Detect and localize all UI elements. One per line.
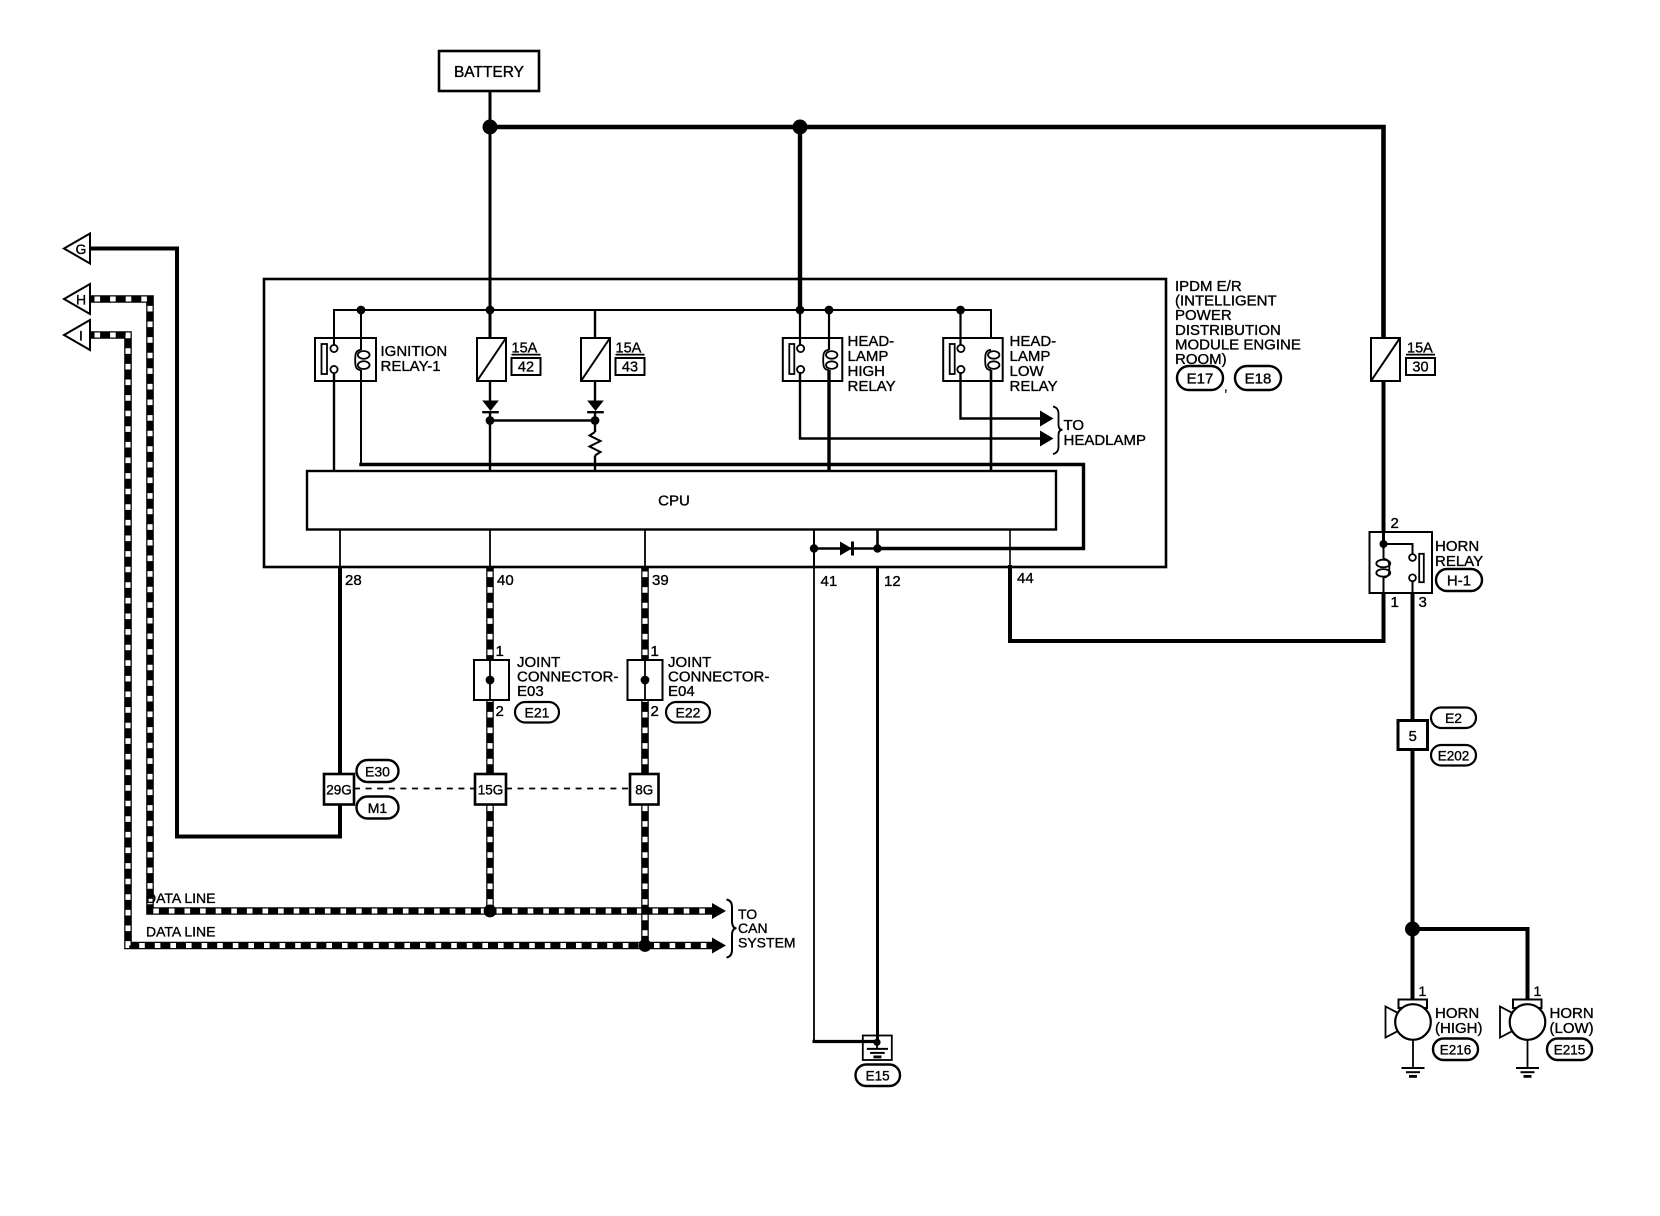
svg-text:1: 1 <box>1419 983 1427 999</box>
svg-text:30: 30 <box>1412 360 1428 376</box>
dotted splice link 15G-8G <box>506 788 630 790</box>
svg-text:E15: E15 <box>866 1069 890 1084</box>
svg-text:2: 2 <box>1391 515 1399 532</box>
svg-text:1: 1 <box>651 643 659 660</box>
svg-text:E03: E03 <box>517 683 544 700</box>
battery <box>439 51 539 91</box>
svg-text:41: 41 <box>821 573 838 590</box>
wire fuse 43 to diode <box>594 381 596 401</box>
svg-text:2: 2 <box>496 703 504 720</box>
svg-text:E216: E216 <box>1440 1043 1472 1058</box>
label TO CAN SYSTEM <box>738 906 796 951</box>
brace to headlamp <box>1053 407 1063 455</box>
connector label E2 <box>1431 708 1476 729</box>
svg-text:E22: E22 <box>676 705 701 721</box>
wire fuse 30 to horn relay <box>1382 381 1386 533</box>
svg-text:44: 44 <box>1017 570 1034 587</box>
junction rail high relay coil <box>825 306 834 315</box>
svg-text:28: 28 <box>345 572 362 589</box>
svg-text:E04: E04 <box>668 683 695 700</box>
connector label E22 <box>666 702 710 723</box>
wire CPU pin 39 stub <box>644 530 646 568</box>
joint connector E04 <box>628 643 663 720</box>
connector label E21 <box>515 702 559 723</box>
wire CPU pin 12 stub <box>876 530 879 549</box>
relay HEADLAMP HIGH RELAY <box>783 333 896 395</box>
diode D1 <box>482 401 499 413</box>
svg-text:I: I <box>79 328 83 344</box>
svg-text:E202: E202 <box>1438 749 1470 764</box>
svg-text:39: 39 <box>652 572 669 589</box>
wire IPDM pin 40 (shielded) <box>486 567 494 911</box>
arrow I <box>64 320 90 350</box>
diode D2 <box>587 401 604 413</box>
fuse 42 <box>477 338 541 381</box>
splice 8G <box>630 774 659 805</box>
svg-text:5: 5 <box>1409 728 1417 745</box>
svg-text:29G: 29G <box>326 783 352 798</box>
svg-text:H-1: H-1 <box>1447 573 1471 590</box>
wire H arrow data line 1 (shielded) <box>90 299 712 911</box>
label JOINT CONNECTOR-E04 <box>668 654 769 700</box>
svg-text:1: 1 <box>1534 983 1542 999</box>
dotted splice link 29G-15G <box>354 788 475 790</box>
junction data line 2 <box>639 939 652 952</box>
svg-text:CPU: CPU <box>658 493 690 510</box>
svg-text:G: G <box>76 241 87 257</box>
connector label E15 <box>856 1065 901 1087</box>
horn high symbol <box>1386 1000 1431 1040</box>
svg-text:12: 12 <box>884 573 901 590</box>
arrow to CAN upper <box>712 903 726 919</box>
wire horn relay pin1 to IPDM pin 44 <box>1010 565 1384 641</box>
label HORN (HIGH) <box>1435 1005 1483 1037</box>
junction rail battery drop <box>796 306 805 315</box>
svg-text:RELAY: RELAY <box>1435 553 1483 570</box>
ground symbol horn low <box>1516 1040 1539 1077</box>
svg-text:E18: E18 <box>1245 371 1272 388</box>
wire rail to low relay contact <box>959 310 961 345</box>
junction diode link left <box>486 416 495 425</box>
svg-text:RELAY: RELAY <box>848 378 896 395</box>
svg-text:E17: E17 <box>1187 371 1214 388</box>
wire IPDM pin 41 to ground <box>813 567 815 1042</box>
svg-text:E215: E215 <box>1554 1043 1586 1058</box>
wire ignition coil down <box>360 370 362 465</box>
relay IGNITION RELAY-1 <box>315 338 447 381</box>
wire horn relay pin3 down <box>1411 593 1415 722</box>
connector label E17 <box>1177 366 1228 394</box>
svg-text:BATTERY: BATTERY <box>454 64 524 81</box>
svg-text:40: 40 <box>497 572 514 589</box>
wire battery bus <box>490 127 1384 338</box>
svg-text:2: 2 <box>651 703 659 720</box>
svg-text:E30: E30 <box>365 764 390 780</box>
svg-text:15G: 15G <box>478 783 504 798</box>
wire G arrow to IPDM pin 28 <box>90 249 340 837</box>
wire high relay contact to headlamp arrow <box>800 372 1040 439</box>
wire CPU return loop (thick) <box>359 465 1083 549</box>
wire internal feed rail <box>334 310 991 346</box>
svg-text:43: 43 <box>622 360 638 376</box>
wire CPU pin 41 stub <box>813 530 815 568</box>
ground symbol horn high <box>1402 1040 1425 1077</box>
connector label E216 <box>1433 1039 1478 1061</box>
connector label M1 <box>357 797 399 819</box>
svg-text:SYSTEM: SYSTEM <box>738 935 796 951</box>
wire low relay contact to headlamp arrow <box>961 372 1041 419</box>
CPU box U1 <box>307 471 1056 530</box>
svg-text:H: H <box>76 292 86 308</box>
svg-text:(HIGH): (HIGH) <box>1435 1020 1483 1037</box>
wire fuse 42 to diode <box>489 381 491 401</box>
wire diode D1 to CPU <box>489 413 491 471</box>
wire IPDM pin 39 (shielded) <box>641 567 649 946</box>
wire battery drop to headlamp relays <box>798 127 802 310</box>
junction diode D3 anode <box>810 544 818 552</box>
wire CPU pin 40 stub <box>489 530 491 568</box>
junction rail ignition coil <box>357 306 366 315</box>
arrow to CAN lower <box>712 938 726 954</box>
label HORN RELAY <box>1435 538 1483 570</box>
svg-text:M1: M1 <box>368 800 388 816</box>
svg-text:RELAY-1: RELAY-1 <box>381 358 441 375</box>
svg-text:3: 3 <box>1419 594 1427 611</box>
diode D3 horn feedback <box>814 542 877 556</box>
junction diode D3 cathode <box>873 544 881 552</box>
svg-text:RELAY: RELAY <box>1010 378 1058 395</box>
svg-text:8G: 8G <box>635 783 653 798</box>
ground symbol E15 <box>867 1042 888 1057</box>
wire rail to high relay coil <box>828 310 830 350</box>
svg-text:E2: E2 <box>1445 710 1462 726</box>
wire ignition relay coil top <box>360 310 362 350</box>
svg-text:E21: E21 <box>525 705 550 721</box>
svg-text:DATA LINE: DATA LINE <box>146 890 216 906</box>
wire CPU pin 28 stub <box>339 530 341 568</box>
junction rail fuse 42 <box>486 306 495 315</box>
junction bus right <box>793 120 808 135</box>
junction ground E15 <box>873 1039 880 1046</box>
wire resistor to CPU <box>594 456 596 472</box>
wire battery to bus <box>489 91 492 127</box>
connector label E18 <box>1235 366 1281 390</box>
relay HEADLAMP LOW RELAY <box>943 333 1057 395</box>
connector label E30 <box>357 760 399 782</box>
wire battery drop to fuse 42 <box>489 127 492 338</box>
splice 29G <box>324 774 354 805</box>
fuse 43 <box>581 338 645 381</box>
wire I arrow data line 2 (shielded) <box>90 335 712 946</box>
IPDM E/R label <box>1175 278 1301 368</box>
svg-text:1: 1 <box>1391 594 1399 611</box>
wire ignition relay contact bottom to CPU <box>333 372 335 471</box>
connector label H-1 <box>1436 569 1482 591</box>
svg-text:DATA LINE: DATA LINE <box>146 924 216 940</box>
svg-text:HEADLAMP: HEADLAMP <box>1064 432 1147 449</box>
junction data line 1 <box>484 905 497 918</box>
svg-text:1: 1 <box>496 643 504 660</box>
junction rail low relay contact <box>956 306 965 315</box>
label HORN (LOW) <box>1550 1005 1594 1037</box>
relay HORN RELAY <box>1370 532 1433 593</box>
label JOINT CONNECTOR-E03 <box>517 654 618 700</box>
svg-text:(LOW): (LOW) <box>1550 1020 1594 1037</box>
connector 5 <box>1398 721 1428 750</box>
connector label E215 <box>1547 1039 1592 1061</box>
wire diode link <box>490 419 595 421</box>
wire diode D2 to resistor <box>594 413 596 432</box>
junction horns <box>1405 922 1420 937</box>
junction bus left <box>483 120 498 135</box>
wire IPDM pin 12 to ground <box>876 567 879 1042</box>
junction diode link right <box>591 416 600 425</box>
joint connector E03 <box>474 643 509 720</box>
arrow H <box>64 284 90 314</box>
wire connector 5 to horns <box>1411 750 1415 1001</box>
svg-text:42: 42 <box>518 360 534 376</box>
brace to CAN system <box>727 900 737 958</box>
arrow to headlamp lower <box>1040 431 1054 447</box>
wire rail to fuse 43 <box>594 310 596 338</box>
resistor R1 <box>590 432 601 456</box>
horn low symbol <box>1500 1000 1545 1040</box>
connector label E202 <box>1431 745 1476 766</box>
svg-text:,: , <box>1224 379 1228 394</box>
wire branch to horn low <box>1413 929 1528 1000</box>
wire CPU pin 44 stub <box>1009 530 1011 568</box>
wire rail to high relay contact <box>799 310 801 345</box>
wire high relay coil to CPU <box>827 370 830 471</box>
fuse 30 <box>1371 338 1435 381</box>
splice 15G <box>475 774 506 805</box>
arrow G <box>64 234 90 264</box>
wire low relay coil to CPU <box>990 370 993 471</box>
ground box E15 <box>863 1036 892 1061</box>
IPDM E/R module box <box>264 279 1166 567</box>
arrow to headlamp upper <box>1040 411 1054 427</box>
label TO HEADLAMP <box>1064 417 1147 449</box>
